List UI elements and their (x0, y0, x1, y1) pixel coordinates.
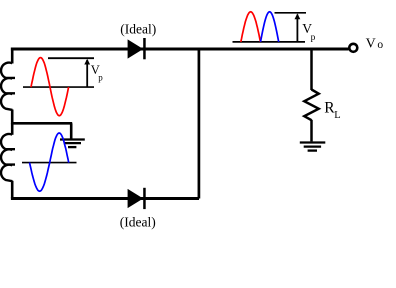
arrow Vp (left) (84, 59, 90, 87)
arrow Vp (output) (295, 13, 301, 42)
wire: center tap horizontal (11, 122, 72, 125)
wire: bottom horizontal (11, 197, 199, 200)
wire: left vertical bottom (winding to bottom wire) (11, 181, 14, 199)
resistor RL zigzag (304, 90, 318, 121)
waveform: primary red sine axis (23, 86, 94, 88)
waveform: blue sine axis (22, 162, 77, 164)
waveform: output blue half-sine (261, 12, 279, 42)
wire: vertical from top winding to center tap (11, 110, 14, 125)
svg-text:p: p (98, 73, 103, 83)
waveform: red sine curve (upper secondary voltage) (31, 58, 69, 116)
wire: center-tap ground stem (70, 123, 73, 139)
ground (center tap) (60, 140, 85, 148)
svg-text:(Ideal): (Ideal) (120, 214, 156, 229)
waveform: output axis (233, 41, 306, 43)
svg-text:(Ideal): (Ideal) (120, 21, 156, 36)
diode D2 (bottom, ideal) (128, 188, 146, 209)
waveform: output peak reference line (275, 12, 307, 14)
wire: resistor to ground (310, 120, 313, 142)
inductor L1 bottom winding (transformer secondary lower half) (1, 134, 15, 181)
diode D1 (top, ideal) (128, 38, 146, 59)
waveform: blue sine curve (lower secondary voltage) (30, 133, 69, 191)
wire: middle vertical joining top and bottom branches (198, 49, 201, 199)
svg-text:o: o (377, 39, 383, 51)
inductor L1 top winding (transformer secondary upper half) (1, 63, 15, 110)
wire: left vertical top (corner to winding) (11, 48, 14, 64)
svg-text:L: L (334, 110, 340, 121)
svg-text:V: V (366, 36, 376, 51)
output terminal node Vo (349, 44, 357, 52)
wire: vertical from center tap to bottom winding (11, 123, 14, 135)
wire: top horizontal from transformer to output terminal (11, 48, 349, 51)
ground (load) (300, 143, 326, 151)
wire: junction down to load resistor (310, 49, 313, 90)
waveform: output red half-sine (241, 12, 261, 42)
svg-text:p: p (311, 33, 316, 43)
waveform: red sine peak reference line (48, 57, 94, 59)
